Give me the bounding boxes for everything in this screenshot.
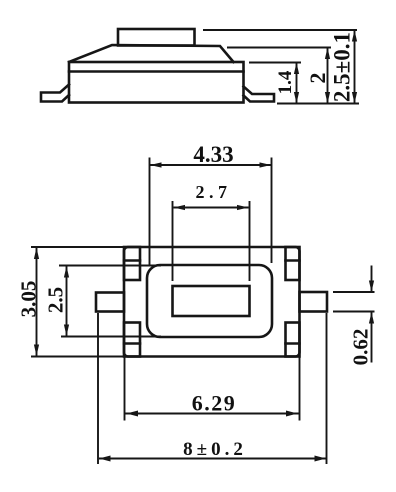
svg-text:8±0.2: 8±0.2: [183, 439, 247, 460]
svg-text:1.4: 1.4: [275, 70, 296, 94]
svg-text:6.29: 6.29: [192, 391, 237, 416]
svg-text:2.5±0.1: 2.5±0.1: [330, 32, 355, 102]
svg-text:4.33: 4.33: [193, 142, 233, 167]
svg-text:0.62: 0.62: [349, 329, 373, 366]
svg-text:2.5: 2.5: [44, 287, 68, 313]
svg-text:3.05: 3.05: [17, 281, 41, 318]
svg-text:2: 2: [305, 73, 330, 84]
svg-text:2.7: 2.7: [196, 182, 232, 202]
